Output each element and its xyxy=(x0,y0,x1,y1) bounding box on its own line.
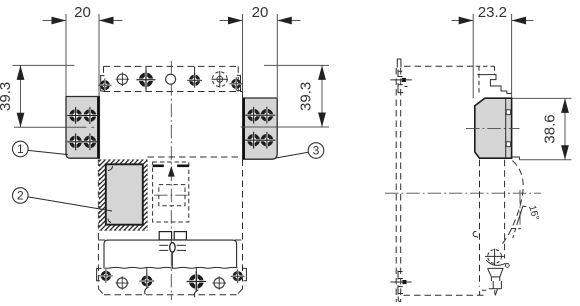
hidden lower box xyxy=(493,281,501,296)
bottom dashed edge xyxy=(404,294,488,296)
top dashed edge xyxy=(404,65,473,67)
screw top t6 dashed circle xyxy=(212,71,229,88)
svg-text:23.2: 23.2 xyxy=(478,4,507,21)
dimension 20 left xyxy=(43,4,123,97)
top terminal strip dashed outline xyxy=(104,66,243,98)
side body gray xyxy=(475,98,520,160)
svg-text:2: 2 xyxy=(17,189,24,203)
lower cover rounded rectangle xyxy=(103,240,237,268)
top clip rectangle xyxy=(397,59,401,68)
DIN rail window dashed xyxy=(153,162,189,222)
svg-text:20: 20 xyxy=(252,4,269,21)
latch rectangles xyxy=(159,232,171,240)
callout 2 xyxy=(12,188,112,211)
svg-text:39.3: 39.3 xyxy=(0,82,14,111)
hidden outline left xyxy=(480,160,505,287)
box 2 hatched compartment xyxy=(99,160,148,231)
screw top t7 xyxy=(229,75,242,90)
screw bottom s1 xyxy=(97,268,113,282)
bottom clip detail xyxy=(390,271,411,302)
dimension 38.6 xyxy=(512,98,572,159)
svg-text:16°: 16° xyxy=(526,204,541,221)
side center line upper xyxy=(466,127,520,129)
screw bottom s4 xyxy=(187,268,206,297)
center adjuster capsule xyxy=(159,243,186,268)
svg-text:38.6: 38.6 xyxy=(542,114,559,143)
svg-text:20: 20 xyxy=(74,4,91,21)
hidden arc below screw xyxy=(486,260,509,267)
terminal block right (3) xyxy=(243,98,278,159)
screw top t5 xyxy=(187,66,202,87)
svg-text:3: 3 xyxy=(313,144,320,158)
hidden screw circle xyxy=(485,249,504,266)
angled face 16 deg xyxy=(511,190,526,238)
dimension 39.3 left xyxy=(0,65,94,127)
front body dashed outline xyxy=(98,157,242,295)
dimension 23.2 xyxy=(452,4,534,99)
callout 3 xyxy=(276,143,324,159)
svg-text:39.3: 39.3 xyxy=(298,82,315,111)
small hook mark xyxy=(473,231,478,237)
screw top t3 xyxy=(137,66,156,91)
front view center line xyxy=(170,61,172,300)
screw top t1 xyxy=(98,76,111,92)
screw bottom s2 xyxy=(115,276,129,290)
hidden outline right bulge xyxy=(503,161,524,244)
dimension 39.3 right xyxy=(241,65,329,127)
screw top t2 xyxy=(116,72,130,86)
screw bottom s3 xyxy=(139,268,154,295)
side center line lower xyxy=(385,192,541,194)
dimension 20 right xyxy=(220,4,301,97)
bottom feet dashed xyxy=(480,289,495,297)
hidden funnel xyxy=(488,268,503,281)
side top stepped profile xyxy=(476,66,512,94)
screw bottom s5 xyxy=(212,276,226,290)
svg-text:1: 1 xyxy=(17,142,24,156)
screw bottom s6 xyxy=(231,268,247,283)
DIN rail dashed double line xyxy=(396,68,401,302)
screw top t4 plain xyxy=(166,74,176,84)
callout 1 xyxy=(12,141,68,157)
top clip detail xyxy=(390,70,412,94)
terminal block left (1) xyxy=(66,97,99,159)
